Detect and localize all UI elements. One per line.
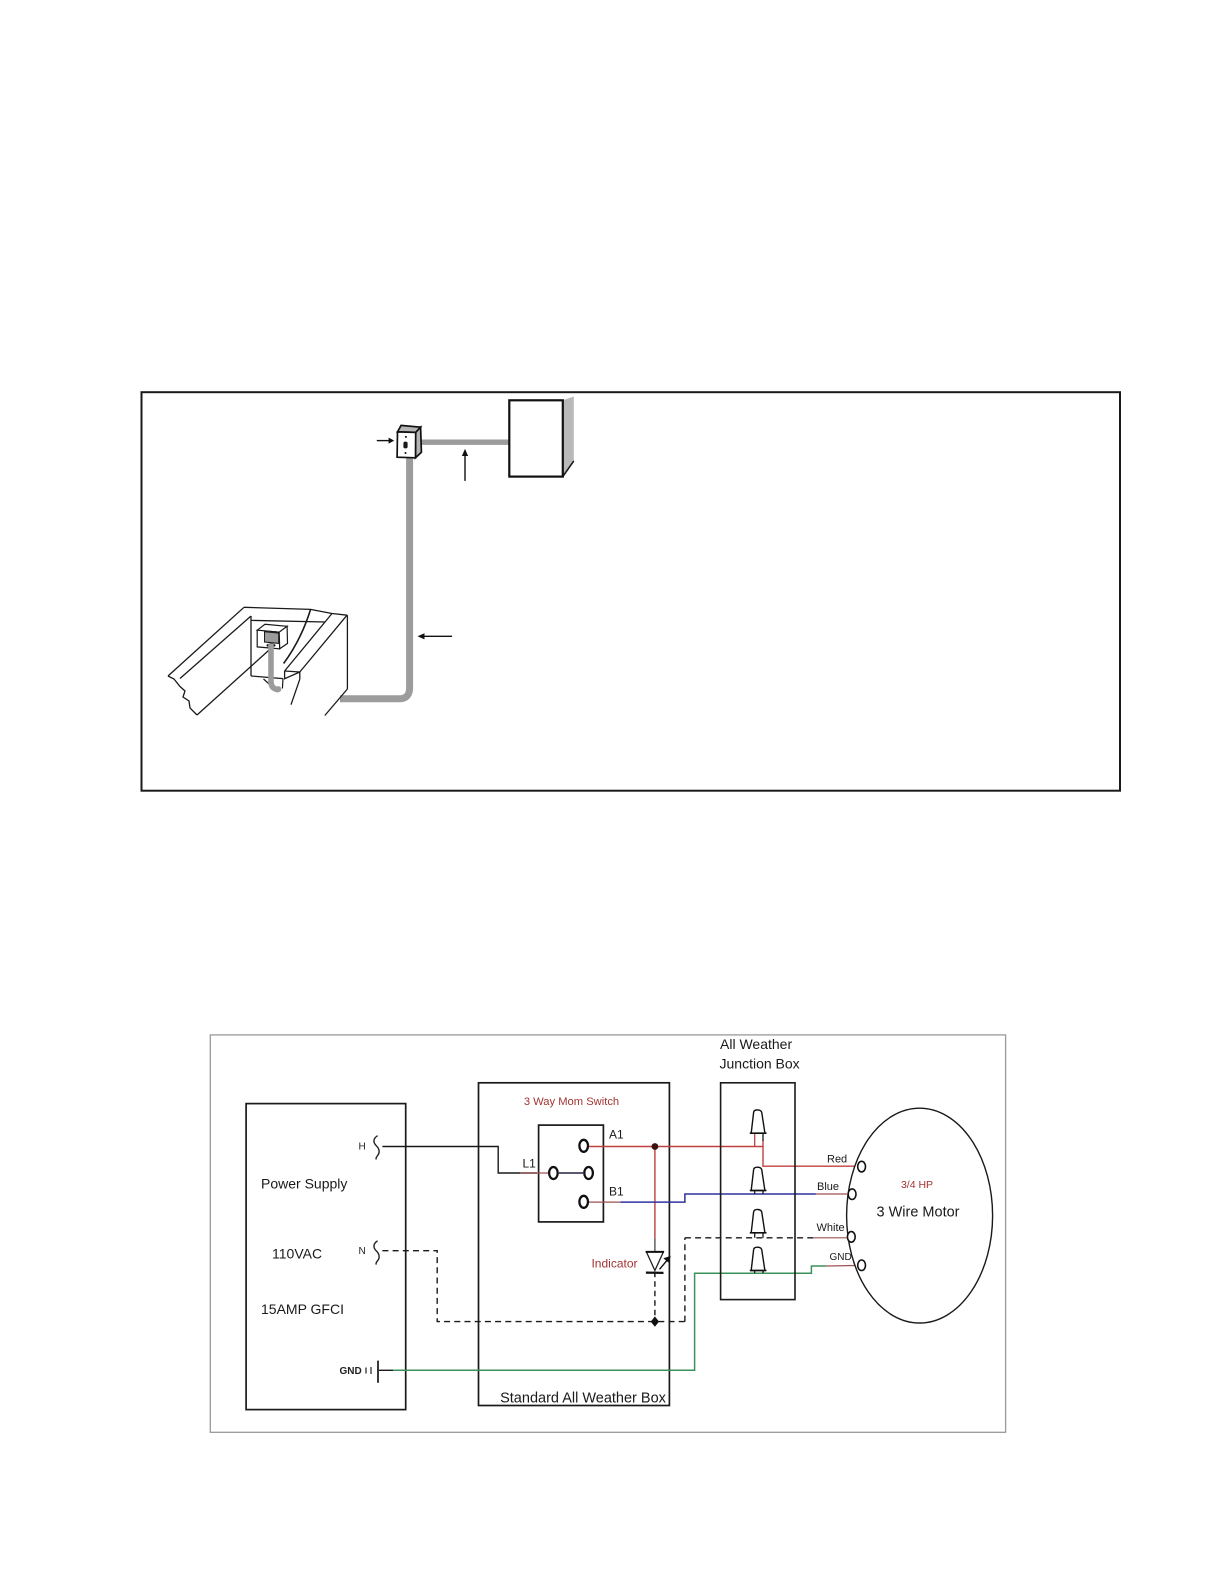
switch box front face — [397, 432, 416, 458]
motor terminal Blue — [848, 1189, 856, 1200]
terminal H squiggle — [374, 1136, 379, 1160]
switch box top face — [398, 425, 421, 432]
label B1 — [609, 1185, 624, 1199]
switch common bar — [559, 1172, 583, 1174]
wire N dashed: power supply neutral — [382, 1251, 685, 1322]
wire GND lead to motor (red-brown) — [826, 1265, 857, 1268]
svg-text:Junction Box: Junction Box — [720, 1056, 800, 1072]
indicator LED — [646, 1252, 664, 1277]
wire White dashed — [685, 1237, 814, 1239]
svg-text:B1: B1 — [609, 1185, 624, 1199]
wall: top outer edge (left wing) — [168, 607, 244, 676]
label White — [817, 1222, 845, 1234]
junction node N (diamond) — [651, 1316, 659, 1326]
control box front face — [509, 400, 563, 476]
label L1 — [523, 1157, 537, 1171]
svg-text:White: White — [817, 1222, 845, 1234]
svg-text:Indicator: Indicator — [591, 1257, 637, 1271]
svg-text:3/4 HP: 3/4 HP — [901, 1179, 933, 1191]
switch contact common — [584, 1167, 593, 1179]
wall: curved joint line — [284, 610, 311, 664]
label Standard All Weather Box — [500, 1391, 667, 1407]
outlet box right face — [279, 626, 287, 649]
wire Blue lead to motor (red-brown) — [816, 1193, 847, 1195]
terminal GND label — [340, 1366, 362, 1377]
wire nut 3 (white) — [750, 1209, 767, 1237]
wall: niche left vertical edge — [250, 616, 252, 676]
switch box right side face — [416, 427, 422, 458]
junction node A1 (dot) — [652, 1143, 659, 1150]
outlet box front face — [257, 630, 280, 649]
wall: top inner edge (left wing) — [180, 616, 251, 679]
svg-text:110VAC: 110VAC — [272, 1246, 322, 1262]
svg-text:A1: A1 — [609, 1128, 624, 1142]
wall: jagged break edge — [168, 676, 197, 715]
switch contact L1 — [549, 1167, 558, 1179]
wall: bottom edge of left face — [197, 647, 273, 716]
GND terminal symbol — [366, 1361, 378, 1383]
wire H: power supply to switch (black) — [382, 1147, 537, 1174]
svg-text:Power Supply: Power Supply — [261, 1176, 347, 1192]
label A1 — [609, 1128, 624, 1142]
installation figure frame — [142, 392, 1121, 791]
wire nut 2 (blue) — [750, 1167, 767, 1194]
wall: niche floor edge — [251, 676, 283, 679]
wall: right top-face strip outer diagonal — [300, 615, 347, 672]
wall: cable slot left diagonal — [264, 679, 278, 692]
switch contact A1 — [579, 1140, 588, 1152]
label Red — [827, 1154, 847, 1166]
svg-text:GND: GND — [830, 1252, 852, 1263]
wiring diagram outer border — [210, 1035, 1005, 1432]
wire L1 lead (red-brown) — [520, 1172, 548, 1174]
standard all weather box — [479, 1083, 670, 1406]
label Power Supply — [261, 1176, 347, 1192]
svg-text:N: N — [359, 1246, 366, 1257]
label Indicator — [591, 1257, 637, 1271]
svg-text:3 Way Mom Switch: 3 Way Mom Switch — [524, 1096, 619, 1108]
label Blue — [817, 1181, 839, 1193]
svg-text:GND: GND — [340, 1366, 362, 1377]
svg-text:15AMP GFCI: 15AMP GFCI — [261, 1301, 344, 1317]
svg-text:L1: L1 — [523, 1157, 537, 1171]
svg-text:Red: Red — [827, 1154, 847, 1166]
svg-text:Blue: Blue — [817, 1181, 839, 1193]
momentary switch body — [539, 1125, 604, 1222]
wall: front-left edge of right section — [291, 679, 300, 705]
conduit: horizontal run from switch box to control box — [419, 440, 510, 445]
label All Weather Junction Box — [720, 1036, 800, 1072]
svg-text:3 Wire Motor: 3 Wire Motor — [877, 1205, 960, 1221]
outlet box inner opening — [265, 632, 279, 644]
indicator LED arrow — [660, 1256, 671, 1269]
label 3 Wire Motor — [877, 1205, 960, 1221]
terminal N label — [359, 1246, 366, 1257]
wire nut 4 (green) — [750, 1247, 767, 1273]
label 110VAC — [272, 1246, 322, 1262]
arrow pointing to switch box — [377, 438, 394, 444]
label GND — [830, 1252, 852, 1263]
wall: right face far vertical edge — [346, 615, 348, 689]
label 15AMP GFCI — [261, 1301, 344, 1317]
motor terminal GND — [858, 1260, 866, 1271]
wire red drop to indicator — [654, 1147, 656, 1252]
wire B1 blue: switch to junction box — [620, 1194, 816, 1202]
wall: right face bottom edge — [325, 689, 348, 716]
motor body — [847, 1108, 993, 1323]
outlet cable — [271, 644, 281, 692]
label 3/4 HP — [901, 1179, 933, 1191]
wire N dashed vertical to White — [684, 1238, 686, 1322]
wall: cable slot right edge — [281, 679, 284, 689]
arrow pointing left at conduit riser — [418, 633, 453, 639]
label 3 Way Mom Switch — [524, 1096, 619, 1108]
wire B1 lead (red-brown) — [589, 1201, 620, 1203]
wire White lead to motor (red-brown) — [814, 1237, 847, 1239]
wire dashed LED to N — [654, 1272, 656, 1322]
arrow pointing up at horizontal conduit — [462, 449, 468, 481]
power supply box — [246, 1104, 406, 1410]
outlet box top face — [257, 624, 287, 632]
wall: niche top edge — [252, 620, 326, 622]
terminal H label — [359, 1142, 366, 1153]
motor terminal Red — [858, 1161, 866, 1172]
wire nut 1 (red) — [750, 1110, 767, 1146]
svg-text:Standard All Weather Box: Standard All Weather Box — [500, 1391, 667, 1407]
wall: back top edge — [244, 607, 347, 615]
switch contact B1 — [579, 1196, 588, 1208]
wall: right top-face strip inner diagonal — [285, 614, 332, 672]
wire A1 red: switch to junction box and motor Red — [589, 1141, 856, 1167]
all weather junction box — [721, 1083, 795, 1300]
control box side face — [563, 397, 574, 477]
wall: step front edge — [285, 671, 300, 679]
outlet box cable hole — [266, 644, 275, 648]
svg-text:All Weather: All Weather — [720, 1036, 792, 1052]
terminal N squiggle — [374, 1241, 379, 1265]
conduit: vertical riser with bend to wall — [340, 455, 410, 699]
wire GND green: power supply to junction box and motor — [379, 1266, 826, 1370]
motor terminal White — [847, 1232, 855, 1243]
svg-text:H: H — [359, 1142, 366, 1153]
